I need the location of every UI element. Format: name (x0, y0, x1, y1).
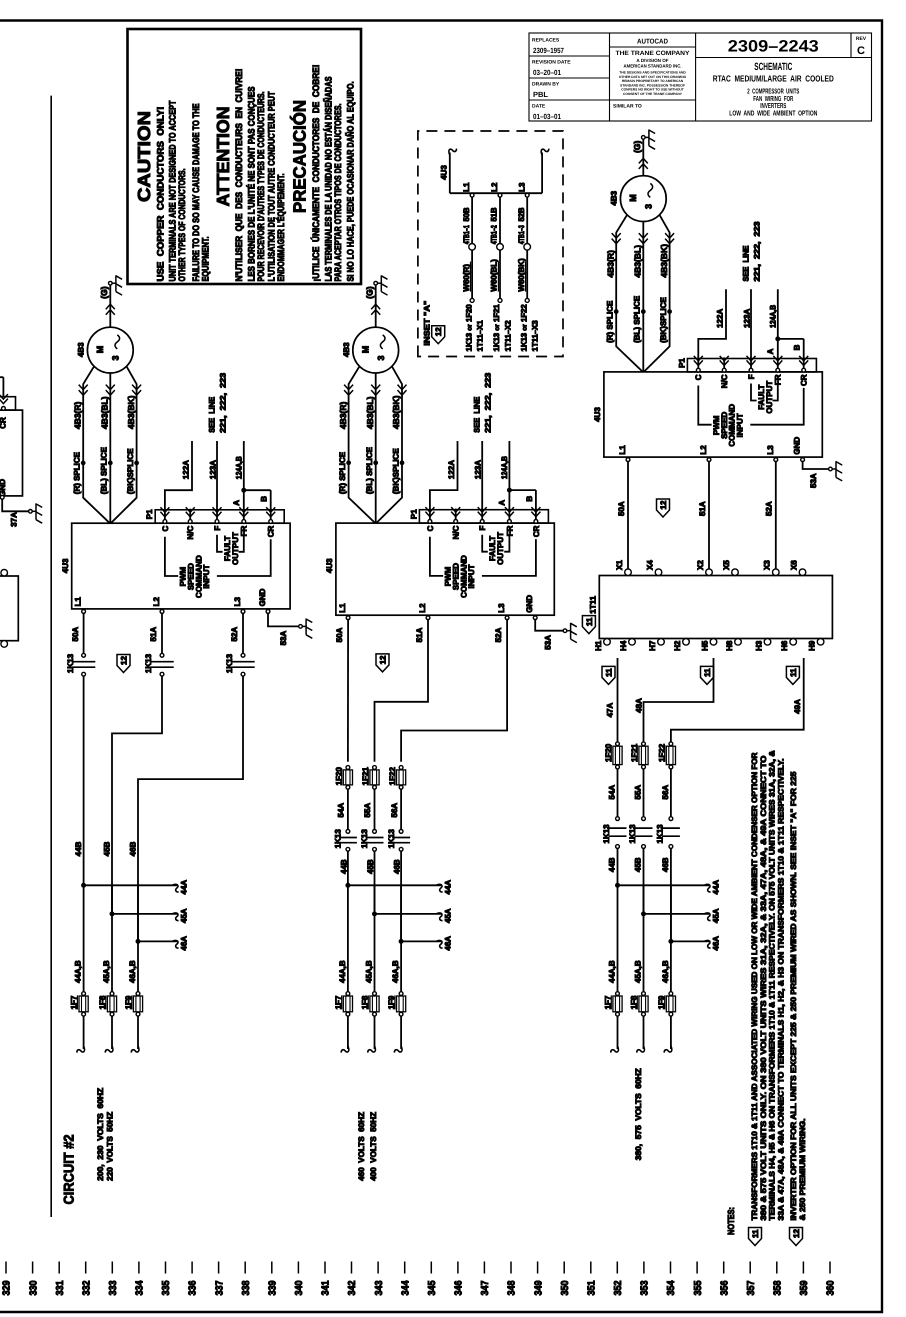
svg-text:221, 222, 223: 221, 222, 223 (218, 372, 227, 433)
svg-text:45A,B: 45A,B (633, 960, 642, 983)
svg-text:B: B (525, 496, 534, 502)
svg-text:333: 333 (108, 1280, 119, 1295)
plug P1 pin chevrons (696, 368, 700, 372)
svg-text:54A: 54A (337, 803, 346, 818)
svg-text:4B3(BL): 4B3(BL) (100, 396, 110, 429)
PWM SPEED COMMAND INPUT bracket (430, 537, 443, 576)
svg-text:4TB1–1: 4TB1–1 (462, 225, 471, 244)
svg-text:AMERICAN STANDARD INC.: AMERICAN STANDARD INC. (624, 64, 682, 69)
svg-text:H3: H3 (754, 640, 763, 651)
svg-text:1K13: 1K13 (225, 653, 234, 673)
svg-text:(BL) SPLICE: (BL) SPLICE (100, 446, 109, 494)
svg-text:4U3: 4U3 (593, 407, 602, 422)
ground symbol (G) fan 2 (374, 281, 378, 285)
svg-text:337: 337 (214, 1280, 225, 1295)
svg-text:N/C: N/C (720, 374, 729, 388)
svg-text:M: M (628, 194, 638, 202)
svg-text:(R) SPLICE: (R) SPLICE (338, 451, 347, 494)
inverter drive 4U3 fan 2 (336, 523, 554, 615)
wire 46A,B fan 1 (137, 885, 139, 991)
wires 50A 51A 52A fan 2 (347, 619, 349, 762)
svg-text:44A,B: 44A,B (607, 960, 616, 983)
svg-text:51A: 51A (149, 627, 158, 642)
wires 50A 51A 52A fan 3 to transformer (627, 461, 629, 570)
fuse 1F7 fan 3 (616, 992, 620, 996)
svg-text:C: C (161, 525, 170, 531)
motor leads with connector chevrons (83, 366, 110, 523)
svg-text:52A: 52A (494, 627, 503, 642)
svg-text:44A: 44A (180, 880, 189, 895)
wire 46A,B fan 2 (400, 885, 402, 991)
svg-text:CONSENT OF THE TRANE COMPANY: CONSENT OF THE TRANE COMPANY (623, 92, 683, 96)
1T11 terminal H5 (710, 639, 717, 646)
svg-text:336: 336 (188, 1280, 199, 1295)
svg-text:H7: H7 (648, 640, 657, 651)
svg-text:11: 11 (703, 668, 712, 677)
svg-text:341: 341 (321, 1280, 332, 1295)
svg-text:51A: 51A (415, 627, 424, 642)
svg-text:45A,B: 45A,B (102, 960, 111, 983)
fuse 1F22 fan 2 (399, 766, 403, 770)
svg-text:F: F (213, 526, 222, 531)
svg-text:SEE LINE: SEE LINE (207, 396, 216, 433)
svg-text:TRANSFORMERS 1T10 & 1T11 AND A: TRANSFORMERS 1T10 & 1T11 AND ASSOCIATED … (750, 752, 759, 1220)
plug P1 housing (419, 510, 548, 523)
inverter drive 4U3 fan 3 (604, 372, 822, 457)
svg-text:ATTENTION: ATTENTION (213, 107, 233, 207)
svg-text:335: 335 (161, 1280, 172, 1295)
svg-text:C: C (694, 374, 703, 380)
1T11 terminal H4 (629, 639, 636, 646)
1T11 terminal H3 (764, 639, 771, 646)
svg-text:PBL: PBL (533, 90, 548, 99)
svg-text:INPUT: INPUT (467, 564, 476, 588)
svg-text:& 250 PREMIUM WIRING.: & 250 PREMIUM WIRING. (798, 1119, 807, 1221)
svg-text:B: B (793, 344, 802, 350)
svg-text:50A: 50A (71, 627, 80, 642)
svg-text:REV: REV (856, 36, 867, 42)
splices (347, 461, 351, 465)
svg-text:CIRCUIT #2: CIRCUIT #2 (61, 1134, 77, 1204)
svg-text:GND: GND (0, 479, 7, 497)
pins L1 L2 L3 GND fan 2 (346, 616, 350, 620)
svg-text:46B: 46B (128, 841, 137, 856)
svg-text:4B3(BL): 4B3(BL) (633, 245, 643, 278)
inset pin L2 (498, 193, 502, 197)
contact 1K13 fan 3 (669, 817, 673, 821)
svg-text:INSET "A": INSET "A" (422, 300, 431, 345)
svg-text:GND: GND (792, 437, 801, 455)
svg-text:4B3(BK): 4B3(BK) (659, 244, 669, 278)
wire to ground with connector chevrons (375, 285, 377, 327)
svg-text:(R) SPLICE: (R) SPLICE (606, 300, 615, 343)
svg-text:THE TRANE COMPANY: THE TRANE COMPANY (616, 50, 691, 57)
svg-text:EQUIPMENT.: EQUIPMENT. (201, 237, 211, 282)
svg-text:4B3(BK): 4B3(BK) (391, 395, 401, 429)
svg-text:1K13 or 1F20: 1K13 or 1F20 (464, 304, 473, 352)
svg-text:2309–2243: 2309–2243 (728, 38, 819, 56)
1T11 terminal X2 (706, 569, 713, 576)
contact 1K13 fan 1 (241, 653, 245, 657)
splices (81, 461, 85, 465)
svg-text:44A: 44A (712, 880, 721, 895)
note flag 12 fan 1 (117, 655, 130, 673)
contact 1K13 fan 2 (346, 830, 350, 834)
wire 123A (216, 441, 218, 520)
svg-text:46A,B: 46A,B (128, 960, 137, 983)
svg-text:1T11: 1T11 (588, 595, 597, 613)
svg-text:45A,B: 45A,B (364, 960, 373, 983)
motor 4B3 fan 1 (87, 327, 133, 373)
svg-text:1K13: 1K13 (360, 829, 369, 849)
PWM SPEED COMMAND INPUT bracket (165, 537, 178, 576)
heading underline (50, 96, 52, 1217)
svg-text:45B: 45B (102, 841, 111, 856)
fuse 1F7 fan 2 (346, 992, 350, 996)
svg-text:A DIVISION OF: A DIVISION OF (636, 58, 668, 63)
svg-text:334: 334 (135, 1280, 146, 1295)
svg-text:(BK)SPLICE: (BK)SPLICE (391, 448, 400, 494)
svg-text:44B: 44B (74, 841, 83, 856)
inverter drive 4U3 fan 1 (72, 523, 290, 609)
svg-text:44A,B: 44A,B (338, 960, 347, 983)
svg-text:45A: 45A (180, 908, 189, 923)
wire 49A (671, 658, 804, 742)
svg-text:L1: L1 (618, 445, 627, 455)
svg-text:L2: L2 (418, 603, 427, 613)
svg-text:(BL) SPLICE: (BL) SPLICE (633, 295, 642, 343)
fuse 1F9 fan 2 (399, 992, 403, 996)
svg-text:C: C (426, 525, 435, 531)
svg-text:44B: 44B (339, 859, 348, 874)
svg-text:X3: X3 (763, 560, 772, 570)
svg-text:(BK)SPLICE: (BK)SPLICE (659, 296, 668, 342)
contact 1K13 fan 3 (616, 817, 620, 821)
plug P1 housing (687, 359, 816, 372)
svg-text:331: 331 (55, 1280, 66, 1295)
title block (529, 33, 872, 121)
svg-text:12: 12 (659, 500, 668, 509)
svg-text:C: C (857, 45, 865, 57)
svg-text:CR: CR (800, 374, 809, 386)
wires 44B 45B 46B fan 1 (83, 676, 85, 883)
svg-text:124A,B: 124A,B (768, 305, 777, 328)
transformer 1T11 (599, 576, 832, 639)
svg-text:RTAC MEDIUM/LARGE AIR COOLE: RTAC MEDIUM/LARGE AIR COOLED (713, 74, 834, 84)
contact 1K13 fan 2 (373, 830, 377, 834)
svg-text:B: B (260, 496, 269, 502)
svg-text:L2: L2 (490, 182, 499, 192)
svg-text:SCHEMATIC: SCHEMATIC (754, 61, 792, 73)
svg-text:4B3: 4B3 (342, 342, 351, 357)
fuse 1F9 fan 1 (136, 992, 140, 996)
svg-text:122A: 122A (182, 460, 191, 479)
svg-text:3: 3 (111, 355, 121, 360)
svg-text:44A: 44A (444, 880, 453, 895)
wire to ground with connector chevrons (642, 139, 644, 176)
svg-text:1K13 or 1F21: 1K13 or 1F21 (492, 304, 501, 352)
motor leads with connector chevrons (616, 215, 643, 372)
svg-text:1K13 or 1F22: 1K13 or 1F22 (519, 304, 528, 352)
svg-text:352: 352 (613, 1280, 624, 1295)
1T11 terminal X6 (799, 569, 806, 576)
ground wire 53A (535, 619, 565, 631)
svg-text:340: 340 (294, 1280, 305, 1295)
svg-text:4B3(R): 4B3(R) (338, 402, 348, 430)
svg-text:SEE LINE: SEE LINE (741, 245, 750, 282)
svg-text:344: 344 (400, 1280, 411, 1295)
svg-text:LAS TERMINALES DE LA UNIDAD NO: LAS TERMINALES DE LA UNIDAD NO ESTÁN DIS… (322, 77, 333, 282)
svg-text:53A: 53A (279, 631, 288, 646)
svg-text:ENDOMMAGER L'ÉQUIPEMENT.: ENDOMMAGER L'ÉQUIPEMENT. (275, 174, 286, 282)
wire 50A (83, 613, 85, 654)
svg-text:W60(BL): W60(BL) (490, 259, 499, 292)
svg-text:1K13: 1K13 (655, 824, 664, 844)
1T11 terminal H1 (604, 639, 611, 646)
wire 45A,B fan 2 (374, 885, 376, 991)
inset pin L1 (470, 193, 474, 197)
svg-text:1T11–X3: 1T11–X3 (531, 320, 540, 352)
branch 44A fan 1 (82, 883, 86, 887)
contact 1K13 fan 1 (82, 653, 86, 657)
svg-text:(G): (G) (364, 286, 374, 298)
svg-text:L3: L3 (497, 603, 506, 613)
svg-text:X6: X6 (789, 560, 798, 570)
svg-text:FR: FR (240, 525, 249, 536)
pins L1 L2 L3 GND fan 3 (626, 458, 630, 462)
svg-text:H6: H6 (780, 640, 789, 651)
svg-text:49A: 49A (793, 699, 802, 714)
svg-text:55A: 55A (363, 803, 372, 818)
svg-text:H8: H8 (725, 640, 734, 651)
svg-text:CR: CR (267, 525, 276, 537)
svg-text:X5: X5 (722, 560, 731, 570)
svg-text:H1: H1 (594, 640, 603, 651)
svg-text:329: 329 (2, 1280, 13, 1295)
svg-text:3: 3 (376, 355, 386, 360)
motor leads with connector chevrons (349, 366, 376, 523)
svg-text:354: 354 (666, 1280, 677, 1295)
svg-text:DATE: DATE (532, 104, 546, 110)
1T11 terminal X3 (773, 569, 780, 576)
svg-text:OUTPUT: OUTPUT (231, 532, 240, 565)
svg-text:L1: L1 (338, 603, 347, 613)
svg-text:4U3: 4U3 (325, 558, 334, 573)
wire 122A (698, 289, 726, 368)
svg-text:46B: 46B (393, 859, 402, 874)
svg-text:123A: 123A (474, 460, 483, 479)
svg-text:REVISION DATE: REVISION DATE (532, 60, 571, 66)
wire 123A (750, 289, 752, 368)
ground symbol (G) fan 3 (642, 136, 646, 140)
1T11 terminal H8 (735, 639, 742, 646)
svg-text:DRAWN BY: DRAWN BY (532, 82, 560, 88)
svg-text:460 VOLTS 60HZ: 460 VOLTS 60HZ (357, 1112, 366, 1181)
inset wire 51B (499, 197, 501, 244)
fuse 1F21 fan 3 (642, 742, 646, 746)
svg-text:P1: P1 (145, 509, 154, 519)
branch 46A fan 1 (136, 939, 140, 943)
svg-text:W60(R): W60(R) (462, 264, 471, 292)
svg-text:200, 230 VOLTS 60HZ: 200, 230 VOLTS 60HZ (96, 1088, 105, 1181)
svg-text:11: 11 (789, 668, 798, 677)
svg-text:FR: FR (774, 374, 783, 385)
svg-text:123A: 123A (742, 309, 751, 328)
svg-text:124A,B: 124A,B (234, 456, 243, 479)
svg-text:L2: L2 (152, 597, 161, 607)
svg-text:INVERTER OPTION FOR ALL UNITS: INVERTER OPTION FOR ALL UNITS EXCEPT 225… (789, 771, 798, 1221)
svg-text:A: A (766, 348, 775, 354)
svg-text:4B3: 4B3 (610, 190, 619, 205)
note flag 12 (790, 1228, 803, 1246)
svg-text:03–20–01: 03–20–01 (533, 68, 561, 77)
svg-text:GND: GND (258, 588, 267, 606)
svg-text:359: 359 (799, 1280, 810, 1295)
svg-text:46A,B: 46A,B (391, 960, 400, 983)
branch 45A fan 3 (642, 912, 646, 916)
svg-text:A: A (232, 500, 241, 506)
svg-text:47A: 47A (605, 703, 614, 718)
svg-text:54A: 54A (608, 785, 617, 800)
PWM SPEED COMMAND INPUT bracket (698, 386, 711, 425)
svg-text:1T11–X1: 1T11–X1 (476, 320, 485, 352)
fuse 1F20 fan 3 (616, 742, 620, 746)
fuse 1F7 fan 1 (82, 992, 86, 996)
wire 51A (161, 613, 163, 654)
svg-text:L2: L2 (699, 445, 708, 455)
svg-text:45B: 45B (366, 859, 375, 874)
svg-text:52B: 52B (517, 207, 526, 221)
svg-text:358: 358 (773, 1280, 784, 1295)
svg-text:37A: 37A (9, 512, 18, 527)
svg-text:H5: H5 (700, 640, 709, 651)
fuse 1F22 fan 3 (669, 742, 673, 746)
svg-text:122A: 122A (447, 460, 456, 479)
svg-text:46A: 46A (444, 936, 453, 951)
wire 48A (644, 658, 714, 742)
svg-text:F: F (478, 525, 487, 530)
inset wire 50B (471, 197, 473, 244)
wire 124A,B (508, 441, 510, 520)
note flag 11 on 47A (602, 666, 615, 684)
svg-text:122A: 122A (716, 309, 725, 328)
svg-text:2309–1957: 2309–1957 (533, 46, 564, 55)
svg-text:52A: 52A (765, 501, 774, 516)
svg-text:53A: 53A (809, 473, 818, 488)
svg-text:CAUTION: CAUTION (134, 111, 154, 202)
svg-text:342: 342 (347, 1280, 358, 1295)
svg-text:USE COPPER CONDUCTORS ONLY!: USE COPPER CONDUCTORS ONLY! (155, 107, 165, 282)
note flag 12 fan 3 (657, 499, 670, 517)
svg-text:L1: L1 (462, 182, 471, 192)
contact 1K13 fan 1 (160, 653, 164, 657)
svg-text:4TB1–3: 4TB1–3 (517, 225, 526, 244)
svg-text:50A: 50A (617, 501, 626, 516)
svg-text:4U3: 4U3 (61, 558, 70, 573)
svg-text:380 & 575 VOLT UNITS ONLY. ON: 380 & 575 VOLT UNITS ONLY. ON 380 VOLT U… (759, 756, 768, 1221)
svg-text:X2: X2 (696, 560, 705, 570)
svg-text:400 VOLTS 50HZ: 400 VOLTS 50HZ (369, 1112, 378, 1181)
svg-text:221, 222, 223: 221, 222, 223 (752, 221, 761, 282)
svg-text:46A: 46A (180, 936, 189, 951)
svg-text:50A: 50A (335, 627, 344, 642)
wire to ground with connector chevrons (109, 285, 111, 327)
svg-text:4B3(R): 4B3(R) (605, 250, 615, 278)
FAULT OUTPUT bracket (751, 384, 757, 401)
svg-text:SI NO LO HACE, PUEDE OCASIONAR: SI NO LO HACE, PUEDE OCASIONAR DAÑO AL E… (344, 82, 355, 282)
svg-text:3: 3 (644, 204, 654, 209)
svg-text:GND: GND (525, 595, 534, 613)
svg-text:M: M (95, 346, 105, 354)
svg-text:1K13: 1K13 (628, 824, 637, 844)
svg-text:N/C: N/C (186, 525, 195, 539)
svg-text:45B: 45B (634, 857, 643, 872)
svg-text:1K13: 1K13 (66, 653, 75, 673)
svg-text:356: 356 (719, 1280, 730, 1295)
svg-text:55A: 55A (634, 785, 643, 800)
svg-text:M: M (360, 346, 370, 354)
svg-text:PRECAUCIÓN: PRECAUCIÓN (289, 100, 309, 213)
caution box (128, 29, 362, 284)
svg-text:X1: X1 (615, 560, 624, 570)
svg-text:48A: 48A (635, 698, 644, 713)
partial transformer 1T10 (sheet edge) (0, 576, 18, 641)
inset note flag 12 (432, 326, 445, 344)
svg-text:56A: 56A (661, 785, 670, 800)
svg-text:348: 348 (507, 1280, 518, 1295)
svg-text:A: A (498, 500, 507, 506)
svg-text:4B3(BL): 4B3(BL) (365, 396, 375, 429)
svg-text:1K13: 1K13 (602, 824, 611, 844)
svg-text:221, 222, 223: 221, 222, 223 (484, 372, 493, 433)
note flag 11 at 1T11 (582, 616, 595, 634)
svg-text:(BL) SPLICE: (BL) SPLICE (365, 446, 374, 494)
svg-text:H4: H4 (619, 640, 628, 651)
svg-text:53A: 53A (543, 635, 552, 650)
svg-text:380, 575 VOLTS 60HZ: 380, 575 VOLTS 60HZ (634, 1068, 643, 1160)
svg-text:H2: H2 (673, 640, 682, 651)
svg-text:REPLACES: REPLACES (532, 38, 560, 44)
svg-text:124A,B: 124A,B (500, 456, 509, 479)
fuse 1F8 fan 2 (373, 992, 377, 996)
svg-text:L'UTILISATION DE TOUT AUTRE CO: L'UTILISATION DE TOUT AUTRE CONDUCTEUR P… (267, 91, 277, 281)
svg-text:PARA ACEPTAR OTROS TIPOS DE CO: PARA ACEPTAR OTROS TIPOS DE CONDUCTORES. (333, 104, 343, 282)
svg-text:4B3: 4B3 (77, 342, 86, 357)
svg-text:¡UTILICE ÚNICAMENTE CONDUCTO: ¡UTILICE ÚNICAMENTE CONDUCTORES DE COBRE… (310, 65, 321, 282)
svg-text:345: 345 (427, 1280, 438, 1295)
svg-text:OTHER TYPES OF CONDUCTORS.: OTHER TYPES OF CONDUCTORS. (177, 169, 187, 282)
svg-text:11: 11 (585, 617, 594, 626)
svg-text:FR: FR (505, 525, 514, 536)
svg-text:50B: 50B (462, 207, 471, 221)
svg-text:4TB1–2: 4TB1–2 (490, 225, 499, 244)
svg-text:46A,B: 46A,B (661, 960, 670, 983)
svg-text:12: 12 (434, 327, 443, 336)
ground wire 53A (803, 461, 831, 469)
wire 45A,B fan 1 (111, 885, 113, 991)
svg-text:01–03–01: 01–03–01 (533, 112, 561, 121)
svg-text:353: 353 (640, 1280, 651, 1295)
contact 1K13 fan 3 (642, 817, 646, 821)
svg-text:330: 330 (28, 1280, 39, 1295)
fuse 1F21 fan 2 (373, 766, 377, 770)
svg-text:4B3(BK): 4B3(BK) (126, 395, 136, 429)
wire 122A (165, 441, 192, 520)
wire 124A,B (243, 441, 245, 520)
svg-text:346: 346 (454, 1280, 465, 1295)
wire 45A,B fan 3 (643, 885, 645, 991)
svg-text:TERMINALS H4, H5 & H6 ON TRANS: TERMINALS H4, H5 & H6 ON TRANSFORMERS 1T… (768, 750, 777, 1220)
